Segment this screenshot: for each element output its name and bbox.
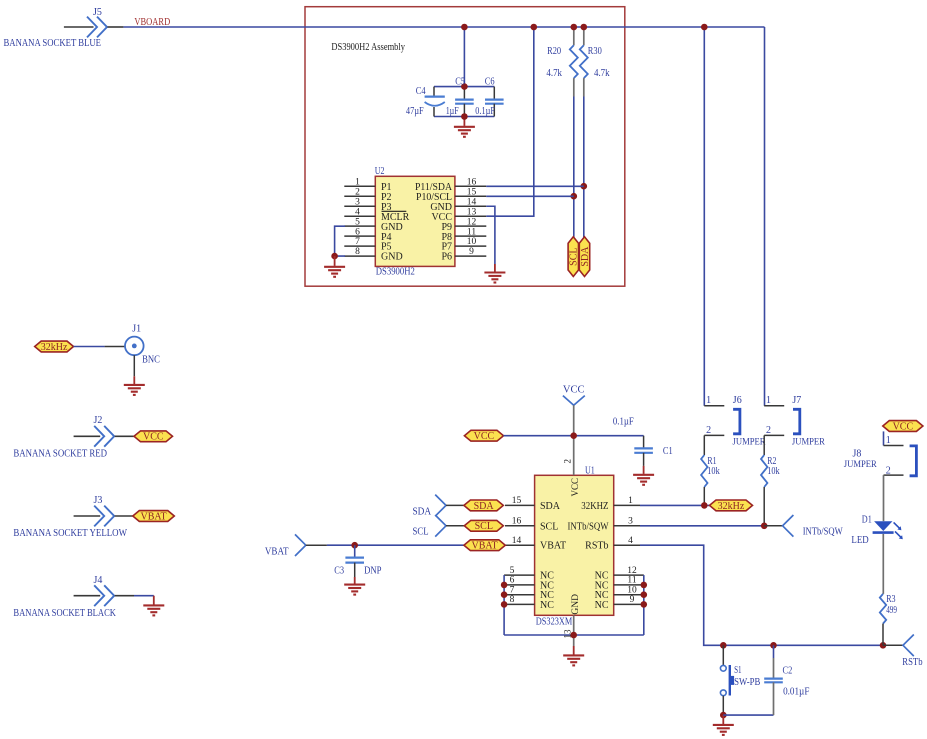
svg-text:14: 14 (467, 197, 477, 207)
svg-text:LED: LED (851, 535, 869, 546)
svg-text:8: 8 (510, 595, 515, 605)
svg-text:NC: NC (595, 600, 609, 611)
svg-text:VCC: VCC (893, 421, 914, 432)
svg-text:32KHZ: 32KHZ (581, 501, 608, 512)
svg-text:SCL: SCL (475, 521, 493, 532)
svg-text:BANANA SOCKET RED: BANANA SOCKET RED (13, 449, 107, 460)
svg-text:13: 13 (563, 629, 573, 639)
svg-text:C4: C4 (416, 86, 426, 97)
svg-text:47µF: 47µF (406, 106, 424, 117)
svg-text:16: 16 (512, 516, 522, 526)
svg-text:JUMPER: JUMPER (844, 459, 877, 469)
svg-text:2: 2 (355, 187, 360, 197)
svg-text:1: 1 (628, 496, 633, 506)
svg-text:0.01µF: 0.01µF (783, 687, 810, 698)
svg-text:VCC: VCC (570, 478, 580, 497)
svg-text:J6: J6 (733, 395, 742, 406)
svg-text:J7: J7 (792, 395, 801, 406)
svg-text:10k: 10k (767, 466, 779, 477)
svg-text:SCL: SCL (569, 247, 580, 265)
svg-text:VBOARD: VBOARD (134, 17, 170, 28)
svg-text:1: 1 (766, 395, 771, 406)
svg-text:SDA: SDA (474, 501, 495, 512)
svg-text:U1: U1 (585, 465, 595, 476)
svg-text:BNC: BNC (142, 355, 160, 366)
svg-text:J4: J4 (94, 575, 103, 586)
svg-text:BANANA SOCKET YELLOW: BANANA SOCKET YELLOW (13, 528, 127, 539)
svg-text:DS323XM: DS323XM (536, 616, 573, 627)
svg-text:2: 2 (886, 465, 891, 476)
svg-text:11: 11 (627, 576, 636, 586)
svg-text:VBAT: VBAT (265, 546, 289, 557)
svg-text:9: 9 (630, 595, 635, 605)
svg-text:10: 10 (467, 237, 477, 247)
svg-text:SW-PB: SW-PB (734, 677, 760, 688)
svg-text:10: 10 (627, 585, 637, 595)
svg-text:10k: 10k (707, 466, 719, 477)
svg-text:5: 5 (510, 566, 515, 576)
svg-text:NC: NC (540, 600, 554, 611)
svg-text:15: 15 (467, 187, 477, 197)
svg-text:SDA: SDA (580, 246, 591, 267)
svg-text:R20: R20 (547, 46, 561, 57)
svg-text:C6: C6 (485, 76, 495, 87)
svg-text:C3: C3 (334, 566, 344, 577)
svg-text:BANANA SOCKET BLUE: BANANA SOCKET BLUE (4, 38, 102, 49)
svg-text:SDA: SDA (413, 507, 432, 518)
svg-text:C1: C1 (663, 446, 673, 457)
svg-text:16: 16 (467, 177, 477, 187)
svg-text:VCC: VCC (143, 432, 164, 443)
svg-text:5: 5 (355, 217, 360, 227)
svg-text:1: 1 (706, 395, 711, 406)
svg-text:32kHz: 32kHz (41, 342, 68, 353)
svg-text:J5: J5 (93, 7, 102, 18)
svg-text:SCL: SCL (413, 527, 429, 538)
svg-text:VCC: VCC (563, 385, 585, 396)
svg-text:VBAT: VBAT (472, 541, 498, 552)
svg-text:2: 2 (706, 425, 711, 436)
svg-text:BANANA SOCKET BLACK: BANANA SOCKET BLACK (13, 608, 116, 619)
svg-text:2: 2 (766, 425, 771, 436)
svg-text:RSTb: RSTb (902, 657, 922, 668)
svg-text:GND: GND (381, 252, 403, 263)
svg-text:11: 11 (467, 227, 476, 237)
svg-text:SDA: SDA (540, 501, 561, 512)
svg-text:13: 13 (467, 207, 477, 217)
svg-text:D1: D1 (862, 514, 872, 525)
svg-text:0.1µF: 0.1µF (613, 416, 634, 427)
svg-text:14: 14 (512, 536, 522, 546)
svg-text:12: 12 (627, 566, 637, 576)
svg-text:DNP: DNP (364, 566, 382, 577)
svg-text:U2: U2 (375, 166, 385, 177)
svg-text:4.7k: 4.7k (546, 68, 562, 79)
svg-text:DS3900H2 Assembly: DS3900H2 Assembly (331, 42, 405, 53)
svg-text:P6: P6 (441, 252, 452, 263)
svg-text:SCL: SCL (540, 521, 558, 532)
svg-text:J1: J1 (132, 323, 141, 334)
svg-text:J8: J8 (853, 448, 862, 459)
svg-text:C2: C2 (783, 666, 793, 677)
svg-text:32kHz: 32kHz (718, 501, 745, 512)
svg-text:4: 4 (355, 207, 360, 217)
svg-text:7: 7 (355, 237, 360, 247)
svg-text:J2: J2 (94, 415, 103, 426)
svg-text:R3: R3 (886, 594, 895, 605)
svg-text:JUMPER: JUMPER (733, 436, 766, 446)
svg-text:INTb/SQW: INTb/SQW (568, 521, 609, 532)
svg-text:1: 1 (886, 435, 891, 446)
svg-text:S1: S1 (734, 665, 742, 676)
svg-text:12: 12 (467, 217, 477, 227)
svg-text:R30: R30 (588, 46, 602, 57)
svg-text:7: 7 (510, 585, 515, 595)
svg-text:VCC: VCC (474, 431, 495, 442)
svg-text:DS3900H2: DS3900H2 (376, 267, 415, 278)
svg-text:C5: C5 (455, 76, 465, 87)
svg-text:JUMPER: JUMPER (792, 436, 825, 446)
svg-text:VBAT: VBAT (540, 541, 566, 552)
svg-text:J3: J3 (94, 495, 103, 506)
svg-text:3: 3 (355, 197, 360, 207)
svg-text:GND: GND (571, 594, 581, 615)
svg-text:VBAT: VBAT (140, 511, 166, 522)
svg-text:2: 2 (563, 459, 573, 464)
svg-text:1µF: 1µF (446, 106, 459, 117)
svg-text:3: 3 (628, 516, 633, 526)
svg-text:1: 1 (355, 177, 360, 187)
svg-text:15: 15 (512, 496, 522, 506)
svg-text:4: 4 (628, 536, 633, 546)
svg-text:8: 8 (355, 247, 360, 257)
svg-text:6: 6 (510, 576, 515, 586)
svg-text:4.7k: 4.7k (594, 68, 610, 79)
svg-text:9: 9 (469, 247, 474, 257)
svg-text:0.1µF: 0.1µF (475, 106, 495, 117)
svg-text:RSTb: RSTb (585, 541, 608, 552)
svg-text:499: 499 (886, 605, 897, 616)
svg-text:6: 6 (355, 227, 360, 237)
svg-text:INTb/SQW: INTb/SQW (803, 527, 843, 538)
